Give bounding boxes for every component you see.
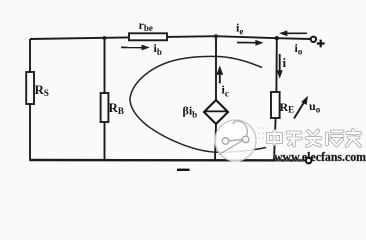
node: top dependent-source junction bbox=[214, 34, 218, 38]
current arrow io (pointing left) bbox=[279, 30, 307, 36]
terminal: output + bbox=[311, 37, 316, 42]
node: top output junction bbox=[275, 36, 279, 40]
wire: bottom horizontal bus bbox=[29, 159, 305, 162]
feedback loop ellipse (open on right) bbox=[130, 56, 266, 152]
resistor RE bbox=[271, 92, 280, 118]
resistor rbe bbox=[129, 33, 167, 40]
resistor RB bbox=[101, 93, 109, 122]
current arrow ib bbox=[121, 45, 150, 51]
node: top RB junction bbox=[103, 36, 107, 40]
current arrow ie bbox=[237, 40, 264, 46]
dependent source beta-ib (diamond) bbox=[204, 100, 228, 124]
wire: top horizontal bus bbox=[30, 36, 311, 39]
svg-text:www.elecfans.com: www.elecfans.com bbox=[274, 149, 366, 164]
stylized CJK watermark glyphs bbox=[268, 130, 360, 146]
wire: left vertical (source branch) bbox=[29, 39, 31, 160]
voltage arrow uo bbox=[294, 96, 308, 119]
resistor RS bbox=[26, 72, 34, 104]
wire: RB branch vertical bbox=[104, 38, 106, 160]
terminal: bottom output bbox=[306, 158, 312, 164]
current arrow i bbox=[277, 54, 283, 79]
watermark bbox=[215, 120, 366, 164]
svg-text:i: i bbox=[283, 55, 287, 70]
wire: output branch vertical bbox=[274, 38, 277, 160]
current arrow ic bbox=[216, 66, 223, 84]
wire: dependent-source branch vertical bbox=[215, 36, 216, 160]
caption fragment (cut off) bbox=[177, 169, 190, 171]
polarity + sign bbox=[317, 40, 325, 48]
